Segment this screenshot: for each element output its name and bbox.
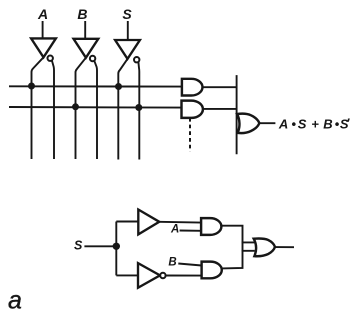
svg-text:B: B [168, 256, 176, 268]
svg-text:B: B [77, 6, 87, 22]
svg-text:A: A [170, 223, 179, 235]
svg-text:a: a [8, 287, 22, 315]
svg-text:A: A [37, 6, 48, 22]
svg-text:A•S+B•S′: A•S+B•S′ [278, 116, 350, 132]
svg-text:S: S [122, 6, 132, 22]
svg-text:S: S [74, 239, 83, 253]
